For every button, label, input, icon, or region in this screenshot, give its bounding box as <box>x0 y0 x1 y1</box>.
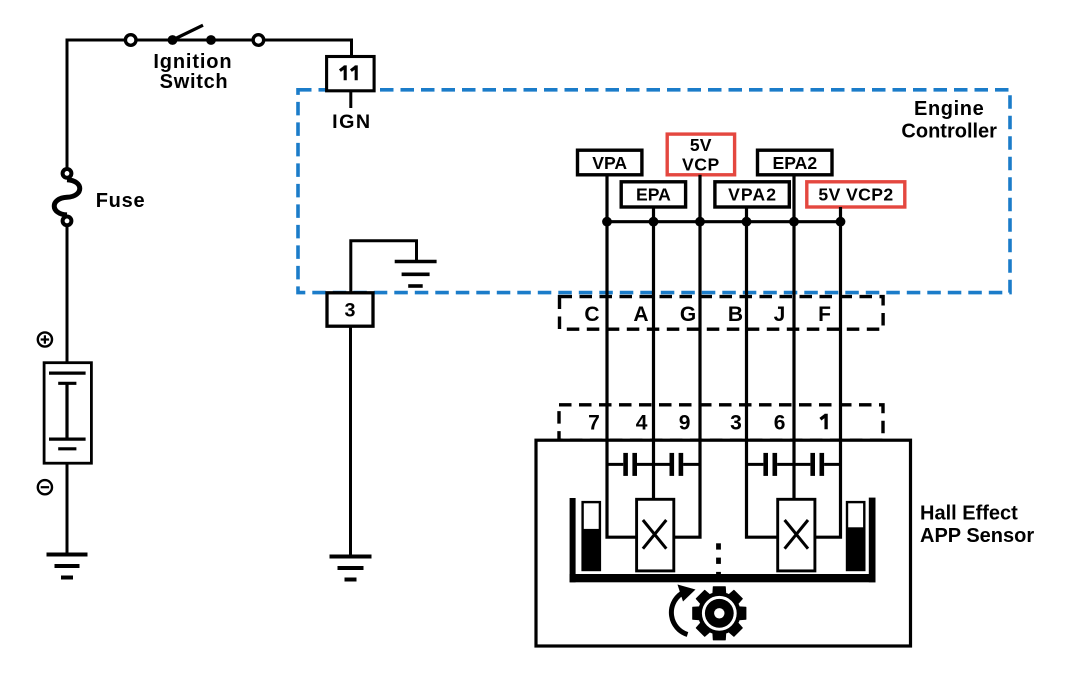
svg-text:4: 4 <box>636 411 648 434</box>
wire VPA2 label to bus <box>745 207 748 222</box>
wire C2 to pin9 <box>683 463 700 466</box>
svg-text:B: B <box>728 303 743 326</box>
switch pole dot right <box>206 35 216 45</box>
svg-text:J: J <box>774 303 786 326</box>
junction EPA2 <box>789 217 799 227</box>
ground (engine controller internal) <box>395 262 437 287</box>
rotation arrow <box>671 585 695 635</box>
pedal shaft dotted line <box>716 543 721 578</box>
wire pin C/7 (VPA) <box>607 222 639 538</box>
wire pin F/1 (5V VCP2) <box>813 222 841 538</box>
wire pin J/6 (EPA2) <box>792 222 795 501</box>
svg-text:Controller: Controller <box>901 120 997 142</box>
battery negative terminal mark <box>38 480 52 494</box>
junction VPA2 <box>742 217 752 227</box>
wire C4 to pin1 <box>824 463 840 466</box>
yoke bracket (right bar) <box>869 498 876 583</box>
battery <box>44 363 91 464</box>
net label EPA <box>621 182 685 207</box>
wire EPA label to bus <box>652 207 655 222</box>
svg-text:C: C <box>584 303 599 326</box>
wire battery to ground <box>66 463 69 554</box>
ground (pin 3) <box>330 557 372 580</box>
svg-text:Engine: Engine <box>914 98 984 120</box>
svg-text:6: 6 <box>774 411 786 434</box>
svg-text:A: A <box>633 303 648 326</box>
switch pole dot left <box>168 35 178 45</box>
pedal rotor gear icon <box>693 587 746 640</box>
wire below pin 11 <box>349 91 352 108</box>
wire C3 to C4 <box>777 463 810 466</box>
pin 1 <box>820 414 826 430</box>
wire EPA2 label to bus <box>792 175 795 222</box>
svg-text:VCP: VCP <box>682 155 720 175</box>
switch arm <box>173 25 204 40</box>
controller connector (dashed) <box>560 297 884 330</box>
capacitor C3 <box>763 453 777 476</box>
wire: battery positive feed (vertical left) and ignition feed (horizontal top) <box>67 40 352 169</box>
svg-text:EPA2: EPA2 <box>772 153 817 173</box>
net label VPA2 <box>715 182 789 207</box>
junction VPA <box>602 217 612 227</box>
net label 5V VCP (red) <box>667 134 734 175</box>
capacitor C2 <box>670 453 684 476</box>
engine controller boundary (dashed blue box) <box>298 90 1010 293</box>
battery positive terminal mark <box>38 332 52 346</box>
svg-text:VPA2: VPA2 <box>728 185 777 205</box>
svg-text:VPA: VPA <box>592 153 627 173</box>
svg-text:Fuse: Fuse <box>96 190 146 212</box>
svg-text:G: G <box>680 303 696 326</box>
svg-text:Switch: Switch <box>160 71 229 93</box>
wire pin7 to C1 <box>607 463 623 466</box>
wire pin3 to C3 <box>747 463 764 466</box>
junction 5V VCP2 <box>836 217 846 227</box>
wire pin G/9 (5V VCP) <box>672 222 700 538</box>
wire 5V VCP label to bus <box>698 175 701 222</box>
hall element X2 <box>778 499 815 571</box>
label Ignition Switch <box>153 51 232 93</box>
ignition switch <box>125 25 263 45</box>
wire fuse to battery <box>66 226 69 364</box>
svg-text:3: 3 <box>345 300 356 322</box>
svg-text:7: 7 <box>588 411 600 434</box>
yoke bracket (bottom bar) <box>570 574 876 582</box>
svg-text:IGN: IGN <box>332 111 372 133</box>
net label 5V VCP2 (red) <box>807 182 905 207</box>
svg-text:APP Sensor: APP Sensor <box>920 525 1034 547</box>
sensor connector (dashed) <box>559 405 883 440</box>
net label EPA2 <box>758 150 833 175</box>
hall element X1 <box>637 499 674 571</box>
magnet (left) <box>583 502 600 570</box>
wire pin 3 to ground <box>349 326 352 556</box>
junction EPA <box>649 217 659 227</box>
svg-text:5V VCP2: 5V VCP2 <box>818 185 893 205</box>
svg-text:3: 3 <box>730 411 742 434</box>
capacitor C4 <box>810 453 824 476</box>
svg-text:Ignition: Ignition <box>153 51 232 73</box>
bus wire across junctions <box>607 220 841 223</box>
magnet (right) <box>847 502 864 570</box>
ground (battery) <box>47 555 88 578</box>
svg-text:F: F <box>818 303 831 326</box>
svg-text:Hall Effect: Hall Effect <box>920 503 1018 525</box>
wire pin A/4 (EPA) <box>652 222 655 501</box>
connector pin 11 box <box>327 57 375 91</box>
hall effect APP sensor enclosure <box>536 440 911 646</box>
label Engine Controller <box>901 98 997 142</box>
wire: pin 3 to internal ground <box>351 241 417 293</box>
capacitor C1 <box>623 453 637 476</box>
wire C1 to C2 <box>637 463 670 466</box>
wire pin B/3 (VPA2) <box>747 222 780 538</box>
wire 5V VCP2 label to bus <box>839 207 842 222</box>
fuse F <box>54 169 80 225</box>
label Hall Effect APP Sensor <box>920 503 1034 548</box>
connector pin 3 box <box>327 293 373 326</box>
svg-text:EPA: EPA <box>636 185 671 205</box>
wire VPA label to bus <box>605 175 608 222</box>
yoke bracket (left bar) <box>570 498 576 582</box>
svg-text:5V: 5V <box>690 135 712 155</box>
switch contact terminal (open circle left) <box>125 35 136 46</box>
junction 5V VCP <box>695 217 705 227</box>
switch contact terminal (open circle right) <box>253 35 264 46</box>
net label VPA <box>578 150 642 175</box>
svg-text:9: 9 <box>679 411 691 434</box>
